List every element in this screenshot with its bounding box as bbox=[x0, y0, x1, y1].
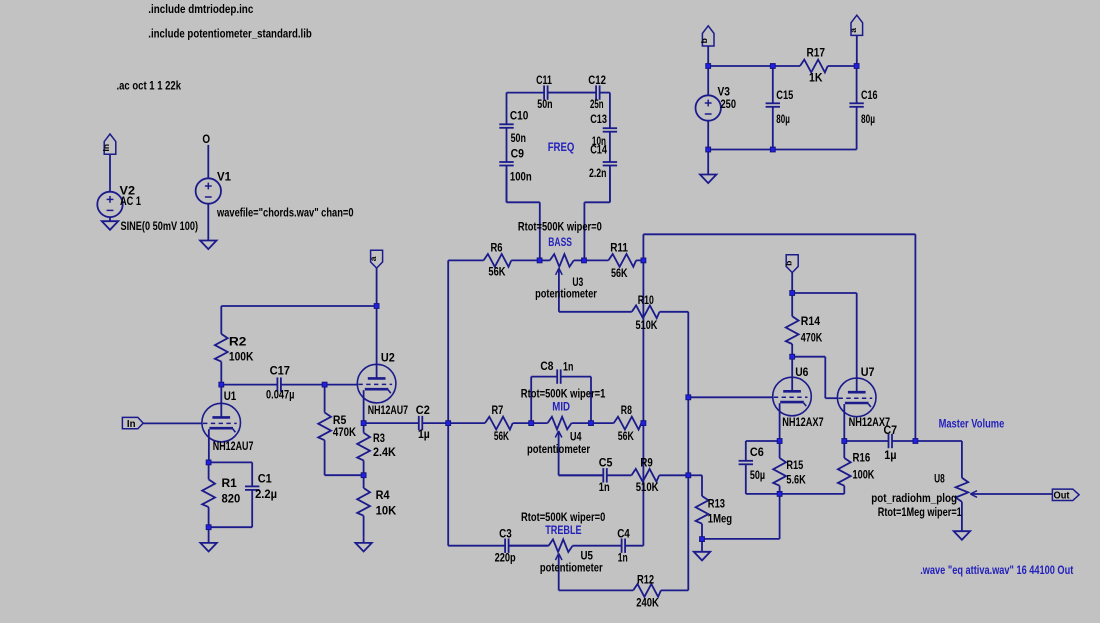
svg-text:U1: U1 bbox=[224, 389, 237, 403]
wire freq top2 bbox=[548, 92, 597, 94]
svg-text:O: O bbox=[202, 132, 210, 146]
svg-text:Rtot=500K wiper=1: Rtot=500K wiper=1 bbox=[521, 387, 606, 401]
junction bbox=[841, 438, 847, 444]
wire to U2 grid bbox=[325, 384, 358, 386]
svg-text:AC 1: AC 1 bbox=[120, 194, 141, 208]
potentiometer U3 bbox=[540, 259, 550, 261]
resistor R10 bbox=[631, 311, 633, 313]
capacitor C6 bbox=[745, 441, 747, 461]
wire U6 cathode bbox=[779, 403, 781, 441]
svg-text:470K: 470K bbox=[333, 425, 356, 439]
svg-text:U7: U7 bbox=[861, 365, 875, 379]
wire bbox=[325, 474, 364, 476]
svg-text:100n: 100n bbox=[510, 169, 532, 183]
wire bbox=[584, 201, 610, 203]
wire bbox=[688, 474, 702, 476]
wire U2 plate bbox=[376, 306, 378, 378]
junction bbox=[789, 290, 795, 296]
resistor R7 bbox=[448, 422, 485, 424]
svg-text:2.4K: 2.4K bbox=[373, 445, 396, 459]
resistor R17 bbox=[773, 65, 800, 67]
svg-text:1Meg: 1Meg bbox=[708, 512, 732, 526]
junction bbox=[854, 63, 860, 69]
svg-text:2.2n: 2.2n bbox=[589, 166, 607, 180]
svg-text:1n: 1n bbox=[618, 550, 628, 564]
svg-text:50µ: 50µ bbox=[750, 468, 765, 482]
wire U7 cathode bbox=[843, 404, 845, 441]
resistor R4 bbox=[363, 475, 365, 488]
svg-text:C11: C11 bbox=[536, 73, 552, 87]
svg-text:25n: 25n bbox=[590, 97, 604, 111]
svg-text:C3: C3 bbox=[499, 527, 512, 541]
wire bbox=[780, 493, 845, 495]
wire bbox=[707, 120, 709, 149]
svg-text:R9: R9 bbox=[640, 456, 653, 470]
flag net In (rotated) above V2 bbox=[104, 134, 116, 154]
capacitor C11 bbox=[543, 92, 545, 94]
svg-text:240K: 240K bbox=[636, 595, 659, 609]
wire R10 row bbox=[559, 311, 632, 313]
wire bbox=[702, 538, 780, 540]
flag net a above U2 bbox=[371, 250, 383, 268]
junction bbox=[206, 460, 212, 466]
flag net b above V3 bbox=[702, 26, 714, 46]
resistor R6 bbox=[448, 259, 483, 261]
svg-text:R15: R15 bbox=[786, 458, 803, 472]
capacitor C1 bbox=[251, 462, 253, 486]
junction bbox=[770, 147, 776, 153]
wire freq top bbox=[507, 92, 545, 94]
svg-text:SINE(0 50mV 100): SINE(0 50mV 100) bbox=[121, 219, 199, 233]
svg-text:b: b bbox=[699, 38, 709, 43]
wire U2 cathode bbox=[363, 390, 365, 423]
triode U7 bbox=[837, 378, 876, 417]
svg-text:Rtot=500K wiper=0: Rtot=500K wiper=0 bbox=[521, 510, 606, 524]
capacitor C13 bbox=[609, 93, 611, 129]
svg-text:1µ: 1µ bbox=[418, 427, 430, 441]
junction bbox=[685, 472, 691, 478]
svg-text:5.6K: 5.6K bbox=[786, 473, 806, 487]
svg-text:In: In bbox=[127, 418, 136, 430]
wiper arrow U3 bbox=[556, 268, 559, 275]
capacitor C16 bbox=[856, 66, 858, 103]
wire U1 cathode bbox=[208, 429, 210, 462]
port In bbox=[122, 417, 143, 428]
wire bbox=[207, 145, 209, 179]
capacitor C5 bbox=[559, 474, 604, 476]
triode U1 bbox=[202, 403, 241, 442]
junction bbox=[641, 420, 647, 426]
svg-text:100K: 100K bbox=[853, 468, 875, 482]
wire bbox=[583, 202, 585, 260]
voltage source V3 bbox=[696, 95, 721, 120]
svg-text:220p: 220p bbox=[495, 550, 516, 564]
wire R12 row bbox=[559, 589, 634, 591]
svg-text:U6: U6 bbox=[795, 365, 808, 379]
junction bbox=[581, 258, 587, 264]
junction bbox=[361, 420, 367, 426]
capacitor C17 bbox=[221, 384, 277, 386]
wire to U7 grid bbox=[792, 356, 825, 358]
svg-text:C9: C9 bbox=[511, 147, 525, 161]
resistor R8 bbox=[591, 422, 614, 424]
wire bbox=[961, 441, 963, 478]
junction bbox=[699, 536, 705, 542]
svg-text:R11: R11 bbox=[610, 241, 628, 255]
wire bbox=[779, 494, 781, 539]
resistor R1 bbox=[208, 462, 210, 479]
svg-text:510K: 510K bbox=[636, 318, 658, 332]
wire bbox=[363, 537, 365, 543]
wire to U7 plate bbox=[792, 292, 857, 294]
svg-text:U8: U8 bbox=[934, 472, 945, 486]
svg-text:C12: C12 bbox=[588, 73, 606, 87]
capacitor C2 bbox=[364, 422, 419, 424]
resistor R2 bbox=[220, 306, 222, 334]
svg-text:a: a bbox=[848, 28, 858, 33]
resistor R9 bbox=[631, 474, 633, 476]
svg-text:.wave "eq attiva.wav" 16 44100: .wave "eq attiva.wav" 16 44100 Out bbox=[920, 563, 1073, 577]
ground bbox=[200, 241, 216, 250]
svg-text:Out: Out bbox=[1054, 490, 1070, 502]
svg-text:80µ: 80µ bbox=[776, 112, 790, 126]
ground bbox=[954, 531, 970, 540]
triode U2 bbox=[357, 364, 396, 403]
wire bbox=[961, 502, 963, 531]
svg-text:250: 250 bbox=[721, 97, 737, 111]
svg-text:C10: C10 bbox=[510, 108, 529, 122]
svg-text:FREQ: FREQ bbox=[548, 140, 575, 154]
resistor R13 bbox=[701, 475, 703, 496]
svg-text:C17: C17 bbox=[270, 363, 291, 377]
svg-text:potentiometer: potentiometer bbox=[527, 442, 590, 456]
wire bbox=[746, 493, 780, 495]
svg-text:C2: C2 bbox=[416, 403, 430, 417]
svg-text:2.2µ: 2.2µ bbox=[255, 487, 277, 501]
svg-text:50n: 50n bbox=[537, 97, 552, 111]
wire U6 plate bbox=[791, 357, 793, 392]
svg-text:R6: R6 bbox=[491, 241, 503, 255]
voltage source V2 bbox=[97, 192, 122, 217]
wire bbox=[507, 201, 540, 203]
svg-text:56K: 56K bbox=[618, 429, 634, 443]
junction bbox=[537, 258, 543, 264]
svg-text:1µ: 1µ bbox=[884, 448, 896, 462]
wire bbox=[791, 273, 793, 293]
svg-text:R17: R17 bbox=[807, 46, 826, 60]
svg-text:470K: 470K bbox=[801, 331, 823, 345]
wire bbox=[856, 35, 858, 66]
junction bbox=[913, 438, 919, 444]
wire bbox=[746, 440, 780, 442]
svg-text:C14: C14 bbox=[590, 143, 607, 157]
wiper arrow U4 bbox=[555, 431, 558, 438]
svg-text:0.047µ: 0.047µ bbox=[266, 388, 294, 402]
ground bbox=[200, 543, 216, 552]
wire bbox=[207, 203, 209, 240]
wire bbox=[143, 422, 202, 424]
flag net b above R14 bbox=[786, 255, 798, 273]
svg-text:R7: R7 bbox=[492, 403, 504, 417]
junction bbox=[685, 394, 691, 400]
svg-text:R13: R13 bbox=[708, 497, 725, 511]
junction bbox=[777, 491, 783, 497]
flag net a above C16 bbox=[851, 15, 863, 35]
capacitor C12 bbox=[595, 92, 597, 94]
resistor R15 bbox=[779, 441, 781, 458]
svg-text:NH12AU7: NH12AU7 bbox=[368, 403, 408, 417]
wire top row bbox=[221, 305, 376, 307]
svg-text:56K: 56K bbox=[494, 429, 509, 443]
capacitor C4 bbox=[573, 545, 622, 547]
resistor R3 bbox=[363, 423, 365, 433]
wire C5 row bbox=[559, 474, 604, 476]
svg-text:56K: 56K bbox=[488, 265, 505, 279]
svg-text:Master Volume: Master Volume bbox=[939, 417, 1005, 431]
wire bbox=[376, 268, 378, 306]
wire bbox=[109, 154, 111, 192]
wiper U8 bbox=[970, 491, 977, 494]
svg-text:1n: 1n bbox=[563, 360, 573, 374]
wire U1 plate bbox=[220, 385, 222, 418]
wire bbox=[609, 169, 611, 203]
ground bbox=[700, 175, 716, 184]
wire bbox=[109, 217, 111, 222]
svg-text:C6: C6 bbox=[750, 445, 764, 459]
svg-text:510K: 510K bbox=[636, 480, 659, 494]
wire top feedback bbox=[643, 233, 915, 235]
svg-text:C8: C8 bbox=[540, 359, 553, 373]
svg-text:C13: C13 bbox=[590, 112, 607, 126]
svg-text:R12: R12 bbox=[637, 572, 654, 586]
junction bbox=[770, 63, 776, 69]
svg-text:R8: R8 bbox=[621, 403, 632, 417]
resistor R12 bbox=[632, 589, 634, 591]
wire rail fb bbox=[914, 234, 916, 441]
svg-text:TREBLE: TREBLE bbox=[545, 523, 581, 537]
svg-text:b: b bbox=[784, 261, 794, 266]
wire bbox=[701, 539, 703, 552]
svg-text:R1: R1 bbox=[222, 476, 238, 490]
capacitor C14 bbox=[609, 161, 611, 163]
wire bbox=[707, 46, 709, 66]
svg-text:10K: 10K bbox=[376, 503, 397, 517]
resistor R5 bbox=[324, 385, 326, 413]
wire bbox=[506, 169, 508, 203]
svg-text:R16: R16 bbox=[853, 451, 871, 465]
svg-text:U2: U2 bbox=[381, 351, 395, 365]
junction bbox=[361, 472, 367, 478]
svg-text:C15: C15 bbox=[776, 88, 793, 102]
wire bbox=[539, 202, 541, 260]
capacitor C15 bbox=[772, 66, 774, 103]
triode U6 bbox=[773, 377, 812, 416]
capacitor C10 bbox=[506, 93, 508, 125]
junction bbox=[445, 420, 451, 426]
wire bbox=[915, 440, 962, 442]
svg-text:.ac oct 1 1 22k: .ac oct 1 1 22k bbox=[117, 78, 182, 92]
potentiometer U4 bbox=[531, 422, 547, 424]
wire rail right bbox=[687, 312, 689, 591]
svg-text:1n: 1n bbox=[599, 480, 610, 494]
svg-text:C4: C4 bbox=[617, 527, 630, 541]
resistor R14 bbox=[791, 293, 793, 316]
svg-text:potentiometer: potentiometer bbox=[535, 287, 597, 301]
svg-text:R10: R10 bbox=[638, 293, 654, 307]
junction bbox=[206, 524, 212, 530]
svg-text:In: In bbox=[101, 144, 111, 152]
svg-text:56K: 56K bbox=[611, 266, 628, 280]
svg-text:pot_radiohm_plog: pot_radiohm_plog bbox=[871, 491, 957, 505]
ground bbox=[355, 543, 371, 552]
svg-text:NH12AX7: NH12AX7 bbox=[782, 415, 824, 429]
wire supply top rail bbox=[708, 65, 773, 67]
wire bbox=[208, 527, 210, 543]
svg-text:MID: MID bbox=[552, 400, 570, 414]
svg-text:BASS: BASS bbox=[548, 235, 572, 249]
ground bbox=[102, 221, 118, 230]
port Out bbox=[1052, 489, 1079, 500]
potentiometer U5 bbox=[509, 545, 549, 547]
ground bbox=[694, 552, 710, 561]
potentiometer U8 body bbox=[956, 478, 969, 502]
capacitor C8 loop bbox=[530, 377, 532, 424]
svg-text:Rtot=500K wiper=0: Rtot=500K wiper=0 bbox=[518, 219, 602, 233]
voltage source V1 bbox=[196, 178, 221, 203]
wire supply bottom rail bbox=[708, 149, 856, 151]
svg-text:1K: 1K bbox=[809, 71, 823, 85]
junction bbox=[374, 303, 380, 309]
resistor R16 bbox=[843, 441, 845, 458]
junction bbox=[777, 438, 783, 444]
svg-text:C5: C5 bbox=[599, 456, 613, 470]
wire bbox=[707, 66, 709, 96]
junction bbox=[588, 420, 594, 426]
junction bbox=[322, 382, 328, 388]
capacitor C7 bbox=[844, 440, 888, 442]
svg-text:C16: C16 bbox=[861, 88, 878, 102]
wiper arrow U5 bbox=[555, 554, 558, 561]
svg-text:Rtot=1Meg wiper=1: Rtot=1Meg wiper=1 bbox=[878, 505, 962, 519]
svg-text:a: a bbox=[368, 256, 378, 261]
svg-text:potentiometer: potentiometer bbox=[540, 561, 603, 575]
svg-text:NH12AU7: NH12AU7 bbox=[213, 439, 254, 453]
junction bbox=[218, 382, 224, 388]
wire rail mid bbox=[642, 234, 644, 545]
svg-text:R2: R2 bbox=[229, 334, 247, 348]
svg-text:80µ: 80µ bbox=[861, 112, 875, 126]
junction bbox=[789, 354, 795, 360]
junction bbox=[641, 258, 647, 264]
svg-text:820: 820 bbox=[222, 492, 241, 506]
svg-text:100K: 100K bbox=[229, 349, 254, 363]
capacitor C3 bbox=[448, 545, 505, 547]
junction bbox=[528, 420, 534, 426]
capacitor C9 bbox=[506, 161, 508, 163]
wire bbox=[209, 526, 253, 528]
svg-text:V1: V1 bbox=[217, 169, 231, 183]
svg-text:R14: R14 bbox=[801, 314, 821, 328]
svg-text:R4: R4 bbox=[376, 488, 390, 502]
svg-text:.include dmtriodep.inc: .include dmtriodep.inc bbox=[148, 2, 253, 16]
junction bbox=[705, 147, 711, 153]
wire bbox=[209, 461, 253, 463]
svg-text:C1: C1 bbox=[258, 472, 272, 486]
wire U6 grid bbox=[688, 396, 773, 398]
junction bbox=[705, 63, 711, 69]
svg-text:50n: 50n bbox=[511, 131, 526, 145]
resistor R11 bbox=[584, 259, 608, 261]
svg-text:.include potentiometer_standar: .include potentiometer_standard.lib bbox=[148, 26, 311, 40]
svg-text:wavefile="chords.wav" chan=0: wavefile="chords.wav" chan=0 bbox=[216, 205, 354, 219]
svg-text:C7: C7 bbox=[884, 423, 898, 437]
wire rail left bbox=[447, 260, 449, 545]
svg-text:R3: R3 bbox=[373, 431, 385, 445]
wire bbox=[707, 150, 709, 175]
